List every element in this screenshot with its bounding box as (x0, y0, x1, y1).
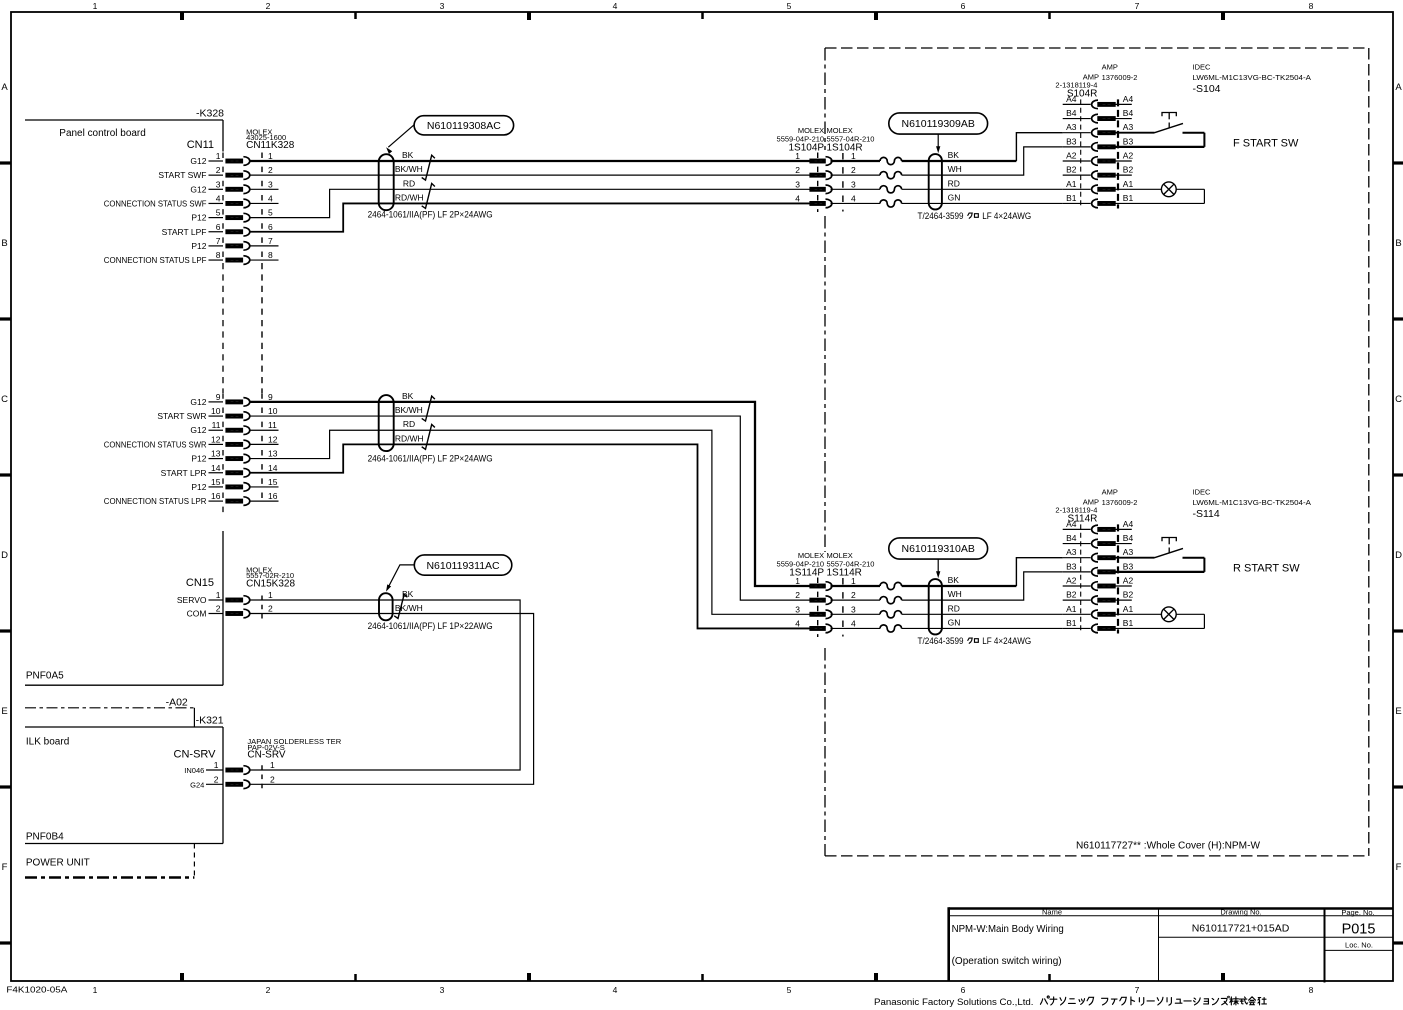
svg-text:T/2464-3599: T/2464-3599 (918, 211, 964, 221)
CN11 pin16 stub (250, 500, 279, 502)
svg-text:RD/WH: RD/WH (395, 192, 424, 202)
wire colour labels front (395, 150, 424, 202)
svg-text:10: 10 (211, 406, 221, 416)
connector 1S114P/1S114R pin 3 (795, 604, 856, 618)
connector 1S114P/1S114R pin 4 (795, 618, 856, 632)
cable label N610119308AC (387, 116, 513, 154)
svg-text:1: 1 (851, 576, 856, 586)
svg-text:12: 12 (211, 434, 221, 444)
svg-text:6: 6 (961, 1, 966, 11)
svg-text:SERVO: SERVO (177, 595, 207, 605)
svg-text:2: 2 (266, 985, 271, 995)
cable shield oval rear (379, 395, 394, 451)
connector 1S104P/1S104R pin 4 (795, 193, 856, 207)
svg-text:Loc. No.: Loc. No. (1345, 941, 1373, 950)
svg-text:B1: B1 (1123, 618, 1134, 628)
wire BK rear: CN11 pin9 right then down to 1S114P pin1 (250, 402, 810, 586)
connector CN-SRV pin 2 (G24) (190, 774, 275, 789)
svg-text:B: B (1, 238, 7, 249)
svg-text:PNF0A5: PNF0A5 (26, 671, 64, 682)
connector CN-SRV pin 1 (IN046) (184, 760, 275, 775)
svg-text:Drawing No.: Drawing No. (1220, 908, 1261, 917)
svg-text:A3: A3 (1066, 547, 1077, 557)
svg-text:3: 3 (268, 179, 273, 189)
svg-text:A4: A4 (1066, 94, 1077, 104)
svg-text:F: F (1396, 862, 1402, 873)
svg-text:15: 15 (268, 477, 278, 487)
wire RD/WH front: CN11 pin6 up to row4 then to 1S104P pin4 (250, 203, 810, 231)
svg-text:A2: A2 (1066, 151, 1077, 161)
svg-text:1: 1 (93, 1, 98, 11)
svg-text:2: 2 (266, 1, 271, 11)
svg-text:3: 3 (216, 179, 221, 189)
connector 1S104P/1S104R header labels (777, 126, 875, 154)
panel board right edge (board boundary) (222, 120, 224, 685)
connector S114R pin A2 (1063, 576, 1134, 591)
svg-text:2: 2 (216, 165, 221, 175)
svg-text:C: C (1395, 394, 1402, 405)
twist mark front pair 2 (422, 184, 435, 209)
svg-text:1: 1 (268, 590, 273, 600)
svg-text:B2: B2 (1066, 590, 1077, 600)
svg-text:2: 2 (795, 165, 800, 175)
svg-text:N610119311AC: N610119311AC (426, 560, 500, 572)
svg-text:N610119310AB: N610119310AB (902, 543, 975, 555)
svg-text:3: 3 (440, 985, 445, 995)
connector S104R pin A2 (1063, 151, 1134, 166)
svg-text:START LPR: START LPR (161, 468, 207, 478)
connector CN-SRV housing dashed line (261, 765, 263, 789)
pushbutton switch F START SW contacts A3-B3 (1115, 113, 1204, 147)
connector S114R pin B2 (1063, 590, 1134, 605)
wire colour labels front (948, 150, 962, 202)
cable label N610119310AB (889, 538, 988, 577)
svg-text:RD/WH: RD/WH (395, 433, 424, 443)
connector S114R pin B1 (1063, 618, 1134, 633)
svg-text:-K321: -K321 (196, 715, 224, 727)
svg-text:AMP: AMP (1102, 487, 1118, 496)
wire RD rear: 1S114R pin 3 toward S114R (831, 613, 881, 615)
svg-text:A1: A1 (1123, 604, 1134, 614)
slack loop on wire BK front (880, 157, 902, 164)
connector 1S114P housing dashed line (817, 578, 819, 637)
svg-text:CN15K328: CN15K328 (246, 578, 295, 589)
wire colour labels CN15 (395, 589, 423, 613)
svg-text:B2: B2 (1123, 590, 1134, 600)
svg-text:7: 7 (1135, 985, 1140, 995)
svg-text:P015: P015 (1342, 921, 1376, 937)
ILK board box with -K321 (25, 715, 224, 844)
connector S114R pin A4 (1063, 519, 1134, 534)
svg-text:16: 16 (268, 491, 278, 501)
svg-text:N610119308AC: N610119308AC (427, 120, 501, 132)
CN11 pin8 stub (250, 259, 279, 261)
slack loop on wire WH rear (880, 597, 902, 604)
svg-text:2: 2 (216, 604, 221, 614)
connector CN11 pin 5 (P12) (191, 208, 273, 223)
svg-text:A: A (1, 82, 8, 93)
svg-text:4: 4 (613, 985, 618, 995)
svg-text:RD: RD (403, 178, 415, 188)
svg-text:2: 2 (851, 590, 856, 600)
wire GN rear: 1S114R pin 4 toward S114R (831, 627, 881, 629)
connector S104R pin A3 (1063, 122, 1134, 137)
svg-text:GN: GN (948, 192, 961, 202)
svg-text:4: 4 (851, 193, 856, 203)
switch component labels IDEC -S114 (1193, 488, 1311, 520)
svg-text:B: B (1395, 238, 1401, 249)
wire BK/WH front: CN11 pin2 to 1S104P pin2 (250, 174, 810, 176)
svg-text:CONNECTION STATUS LPF: CONNECTION STATUS LPF (104, 255, 207, 265)
svg-text:B3: B3 (1123, 561, 1134, 571)
svg-text:4: 4 (216, 193, 221, 203)
svg-text:-S104: -S104 (1193, 83, 1221, 95)
svg-text:7: 7 (1135, 1, 1140, 11)
connector S114R housing dashed lines (1081, 524, 1118, 633)
svg-text:1S114R: 1S114R (827, 567, 862, 578)
svg-text:6: 6 (216, 222, 221, 232)
svg-text:B4: B4 (1066, 108, 1077, 118)
wire GN front: 1S104R pin 4 toward S104R (831, 202, 881, 204)
connector CN11 pin 6 (START LPF) (162, 222, 273, 237)
cable label N610119311AC (387, 555, 512, 590)
twist mark CN15 pair (394, 594, 407, 618)
svg-text:D: D (1395, 550, 1402, 561)
svg-text:A4: A4 (1066, 519, 1077, 529)
wire BK servo: CN15 pin1 down to CN-SRV pin1 (250, 600, 520, 770)
Panel control board box top edge with -K328 (25, 108, 224, 121)
svg-text:B1: B1 (1066, 193, 1077, 203)
svg-text:P12: P12 (191, 241, 206, 251)
svg-text:5: 5 (216, 208, 221, 218)
svg-text:B1: B1 (1123, 193, 1134, 203)
svg-text:7: 7 (216, 236, 221, 246)
svg-text:8: 8 (1309, 1, 1314, 11)
slack loop on wire WH front (880, 172, 902, 179)
wire RD front: CN11 pin5 up to row3 then to 1S104P pin3 (250, 189, 810, 217)
connector CN-SRV header labels (174, 737, 342, 761)
svg-text:B4: B4 (1066, 533, 1077, 543)
svg-text:A1: A1 (1066, 179, 1077, 189)
svg-text:1S104R: 1S104R (827, 142, 863, 153)
wire RD front: 1S104R pin 3 toward S104R (831, 188, 881, 190)
connector 1S114P/1S114R pin 1 (795, 576, 856, 590)
wire BK/WH com: CN15 pin2 down to CN-SRV pin2 (250, 614, 534, 785)
svg-text:C: C (1, 394, 8, 405)
svg-text:2464-1061/IIA(PF) LF 2P×24AWG: 2464-1061/IIA(PF) LF 2P×24AWG (368, 454, 493, 464)
cable shield oval rear (929, 579, 942, 634)
svg-text:BK: BK (948, 150, 960, 160)
connector CN11 pin 15 (P12) (191, 477, 277, 492)
CN11 pin11 stub (250, 429, 279, 431)
connector CN15 header labels (186, 565, 296, 589)
svg-text:1: 1 (270, 760, 275, 770)
connector CN11 pin 7 (P12) (191, 236, 273, 251)
svg-text:Panasonic Factory Solutions Co: Panasonic Factory Solutions Co.,Ltd. (874, 997, 1034, 1008)
svg-text:3: 3 (440, 1, 445, 11)
wire BK front: CN11 pin1 to 1S104P pin1 (250, 160, 810, 162)
connector CN11 pin 1 (G12) (190, 151, 273, 166)
svg-text:2464-1061/IIA(PF) LF 1P×22AWG: 2464-1061/IIA(PF) LF 1P×22AWG (368, 621, 493, 631)
wire WH front: 1S104R pin 2 toward S104R (831, 174, 881, 176)
connector CN11 pin 13 (P12) (191, 449, 277, 464)
connector S104R pin A4 (1063, 94, 1134, 109)
svg-text:F4K1020-05A: F4K1020-05A (6, 985, 68, 994)
connector 1S104R housing dashed line (842, 153, 844, 211)
svg-text:16: 16 (211, 491, 221, 501)
connector S114R pin A1 (1063, 604, 1134, 619)
svg-text:NPM-W:Main Body Wiring: NPM-W:Main Body Wiring (952, 923, 1064, 935)
svg-text:8: 8 (1309, 985, 1314, 995)
svg-text:2: 2 (214, 774, 219, 784)
svg-text:AMP: AMP (1102, 62, 1118, 71)
connector CN11 pin 4 (CONNECTION STATUS SWF) (104, 193, 273, 208)
CN11 pin4 stub (250, 202, 279, 204)
svg-text:LW6ML-M1C13VG-BC-TK2504-A: LW6ML-M1C13VG-BC-TK2504-A (1193, 498, 1311, 507)
cable label N610119309AB (889, 113, 988, 152)
svg-text:B3: B3 (1123, 136, 1134, 146)
POWER UNIT boundary (25, 844, 194, 878)
svg-text:2: 2 (795, 590, 800, 600)
twist mark rear pair 1 (422, 396, 435, 421)
svg-text:10: 10 (268, 406, 278, 416)
connector S104R pin B3 (1063, 136, 1134, 151)
svg-text:3: 3 (851, 179, 856, 189)
wire BK front: 1S104R pin 1 toward S104R (831, 160, 881, 162)
twist mark front pair 1 (422, 155, 435, 180)
wire RD/WH rear: CN11 pin14 up to row12 then down to 1S114P pin4 (250, 444, 810, 628)
svg-text:R START SW: R START SW (1233, 563, 1300, 575)
svg-text:1: 1 (214, 760, 219, 770)
svg-text:5: 5 (268, 208, 273, 218)
svg-text:4: 4 (268, 193, 273, 203)
svg-text:9: 9 (268, 392, 273, 402)
svg-text:4: 4 (795, 618, 800, 628)
svg-text:START SWR: START SWR (157, 411, 206, 421)
connector S114R pin B4 (1063, 533, 1134, 548)
slack loop on wire GN front (880, 200, 902, 207)
svg-text:2464-1061/IIA(PF) LF 2P×24AWG: 2464-1061/IIA(PF) LF 2P×24AWG (368, 210, 493, 220)
svg-text:1: 1 (216, 151, 221, 161)
svg-text:Name: Name (1042, 908, 1062, 917)
svg-text:START SWF: START SWF (158, 170, 206, 180)
svg-text:A3: A3 (1123, 547, 1134, 557)
cable shield oval front (379, 154, 394, 210)
connector S104R housing dashed lines (1081, 99, 1118, 208)
svg-text:N610117721+015AD: N610117721+015AD (1192, 922, 1290, 934)
svg-text:D: D (1, 550, 8, 561)
svg-text:COM: COM (187, 609, 207, 619)
svg-text:14: 14 (268, 463, 278, 473)
slack loop on wire RD front (880, 186, 902, 193)
svg-text:A2: A2 (1123, 151, 1134, 161)
svg-text:4: 4 (851, 618, 856, 628)
svg-text:6: 6 (268, 222, 273, 232)
svg-text:BK: BK (402, 391, 414, 401)
svg-text:B4: B4 (1123, 108, 1134, 118)
svg-text:B3: B3 (1066, 561, 1077, 571)
svg-text:CN11K328: CN11K328 (246, 140, 295, 151)
svg-text:BK/WH: BK/WH (395, 603, 423, 613)
svg-text:1: 1 (795, 576, 800, 586)
svg-text:G24: G24 (190, 780, 204, 789)
svg-text:1: 1 (268, 151, 273, 161)
svg-text:CN11: CN11 (187, 139, 214, 151)
svg-text:ILK board: ILK board (26, 737, 69, 748)
connector CN11 pin 10 (START SWR) (157, 406, 277, 421)
wire BK rear: 1S114R pin 1 toward S114R (831, 585, 881, 587)
svg-text:G12: G12 (190, 397, 206, 407)
wire colour labels rear (395, 391, 424, 444)
svg-text:B1: B1 (1066, 618, 1077, 628)
svg-text:G12: G12 (190, 184, 206, 194)
svg-text:CONNECTION STATUS SWF: CONNECTION STATUS SWF (104, 198, 207, 208)
svg-text:BK: BK (402, 150, 414, 160)
svg-text:N610117727** :Whole Cover (H):: N610117727** :Whole Cover (H):NPM-W (1076, 841, 1261, 852)
svg-text:7: 7 (268, 236, 273, 246)
connector S114R header labels (1055, 487, 1137, 524)
svg-text:BK: BK (948, 575, 960, 585)
CN11 pin15 stub (250, 486, 279, 488)
svg-text:LW6ML-M1C13VG-BC-TK2504-A: LW6ML-M1C13VG-BC-TK2504-A (1193, 73, 1311, 82)
svg-text:B2: B2 (1123, 165, 1134, 175)
slack loop on wire GN rear (880, 625, 902, 632)
connector S104R header labels (1055, 62, 1137, 99)
connector CN15 pin 2 (COM) (187, 604, 273, 619)
svg-text:A1: A1 (1066, 604, 1077, 614)
svg-text:E: E (1395, 706, 1401, 717)
slack loop on wire BK rear (880, 582, 902, 589)
svg-text:11: 11 (212, 420, 221, 430)
svg-text:8: 8 (268, 250, 273, 260)
svg-text:5: 5 (787, 1, 792, 11)
svg-text:1376009-2: 1376009-2 (1102, 498, 1138, 507)
svg-text:15: 15 (211, 477, 221, 487)
pushbutton switch R START SW contacts A3-B3 (1115, 538, 1204, 572)
CN11 pin3 stub (250, 188, 279, 190)
svg-text:1: 1 (795, 151, 800, 161)
connector S104R pin B2 (1063, 165, 1134, 180)
svg-text:IDEC: IDEC (1193, 488, 1212, 497)
svg-text:P12: P12 (191, 454, 206, 464)
svg-text:G12: G12 (190, 156, 206, 166)
svg-text:POWER UNIT: POWER UNIT (26, 858, 90, 869)
svg-text:3: 3 (851, 604, 856, 614)
svg-text:T/2464-3599: T/2464-3599 (918, 636, 964, 646)
svg-text:B2: B2 (1066, 165, 1077, 175)
svg-text:BK/WH: BK/WH (395, 405, 423, 415)
svg-text:1: 1 (216, 590, 221, 600)
wire RD rear: CN11 pin13 up to row11 then down to 1S114P pin3 (250, 430, 810, 614)
svg-text:4: 4 (795, 193, 800, 203)
svg-text:2: 2 (268, 604, 273, 614)
connector CN11 pin 16 (CONNECTION STATUS LPR) (104, 491, 278, 506)
slack loop on wire RD rear (880, 611, 902, 618)
cable shield oval front (929, 154, 942, 209)
svg-text:1: 1 (93, 985, 98, 995)
svg-text:2: 2 (268, 165, 273, 175)
svg-text:14: 14 (211, 463, 221, 473)
svg-text:-S114: -S114 (1193, 508, 1220, 520)
svg-text:P12: P12 (191, 482, 206, 492)
CN11 pin7 stub (250, 245, 279, 247)
svg-text:IDEC: IDEC (1193, 63, 1212, 72)
svg-text:RD: RD (948, 178, 960, 188)
connector CN11 pin 2 (START SWF) (158, 165, 273, 180)
svg-text:GN: GN (948, 617, 961, 627)
connector CN15 housing dashed line (261, 596, 263, 619)
svg-text:12: 12 (268, 434, 278, 444)
svg-text:5: 5 (787, 985, 792, 995)
svg-text:P12: P12 (191, 213, 206, 223)
lamp on A1-B1 (1115, 607, 1204, 629)
connector S104R pin B4 (1063, 108, 1134, 123)
svg-text:START LPF: START LPF (162, 227, 207, 237)
svg-text:11: 11 (268, 420, 277, 430)
connector CN11 header labels (187, 127, 295, 151)
svg-text:A: A (1395, 82, 1402, 93)
svg-text:A3: A3 (1123, 122, 1134, 132)
svg-text:A1: A1 (1123, 179, 1134, 189)
svg-text:8: 8 (216, 250, 221, 260)
connector S104R pin B1 (1063, 193, 1134, 208)
connector CN11 pin 12 (CONNECTION STATUS SWR) (104, 434, 278, 449)
connector CN11 pin 14 (START LPR) (161, 463, 278, 478)
title block (949, 907, 1393, 982)
connector S104R pin A1 (1063, 179, 1134, 194)
svg-text:CN-SRV: CN-SRV (174, 748, 217, 760)
svg-text:F: F (2, 862, 8, 873)
svg-text:RD: RD (948, 603, 960, 613)
svg-text:2: 2 (851, 165, 856, 175)
svg-text:A4: A4 (1123, 519, 1134, 529)
svg-text:-K328: -K328 (196, 108, 224, 120)
wire WH rear: 1S114R pin 2 toward S114R (831, 599, 881, 601)
connector S114R pin B3 (1063, 561, 1134, 576)
svg-text:B4: B4 (1123, 533, 1134, 543)
svg-text:1S104P: 1S104P (789, 142, 825, 153)
connector S114R pin A3 (1063, 547, 1134, 562)
connector 1S104P/1S104R pin 2 (795, 165, 856, 179)
CN11 pin12 stub (250, 443, 279, 445)
connector 1S104P housing dashed line (817, 153, 819, 212)
svg-text:Panel control board: Panel control board (59, 128, 146, 139)
connector CN15 pin 1 (SERVO) (177, 590, 273, 605)
wire colour labels rear (948, 575, 962, 627)
connector CN11 pin 11 (G12) (190, 420, 277, 435)
svg-text:Page. No.: Page. No. (1341, 908, 1374, 917)
switch component labels IDEC -S104 (1193, 63, 1311, 95)
wire BK/WH rear: CN11 pin10 right then down to 1S114P pin2 (250, 416, 810, 600)
svg-text:A3: A3 (1066, 122, 1077, 132)
connector CN11 receptacle housing dashed line (261, 153, 263, 506)
svg-text:9: 9 (216, 392, 221, 402)
connector 1S114R housing dashed line (842, 578, 844, 636)
svg-text:LF 4×24AWG: LF 4×24AWG (982, 211, 1031, 221)
svg-text:WH: WH (948, 589, 962, 599)
svg-text:G12: G12 (190, 425, 206, 435)
cable shield oval CN15 (379, 593, 393, 620)
connector CN11 pin 8 (CONNECTION STATUS LPF) (104, 250, 273, 265)
svg-text:1: 1 (851, 151, 856, 161)
svg-text:13: 13 (268, 449, 278, 459)
svg-text:LF 4×24AWG: LF 4×24AWG (982, 636, 1031, 646)
connector 1S114P/1S114R pin 2 (795, 590, 856, 604)
svg-text:N610119309AB: N610119309AB (902, 118, 975, 130)
svg-text:CN15: CN15 (186, 577, 214, 589)
svg-text:CN-SRV: CN-SRV (247, 750, 285, 761)
svg-text:A2: A2 (1123, 576, 1134, 586)
